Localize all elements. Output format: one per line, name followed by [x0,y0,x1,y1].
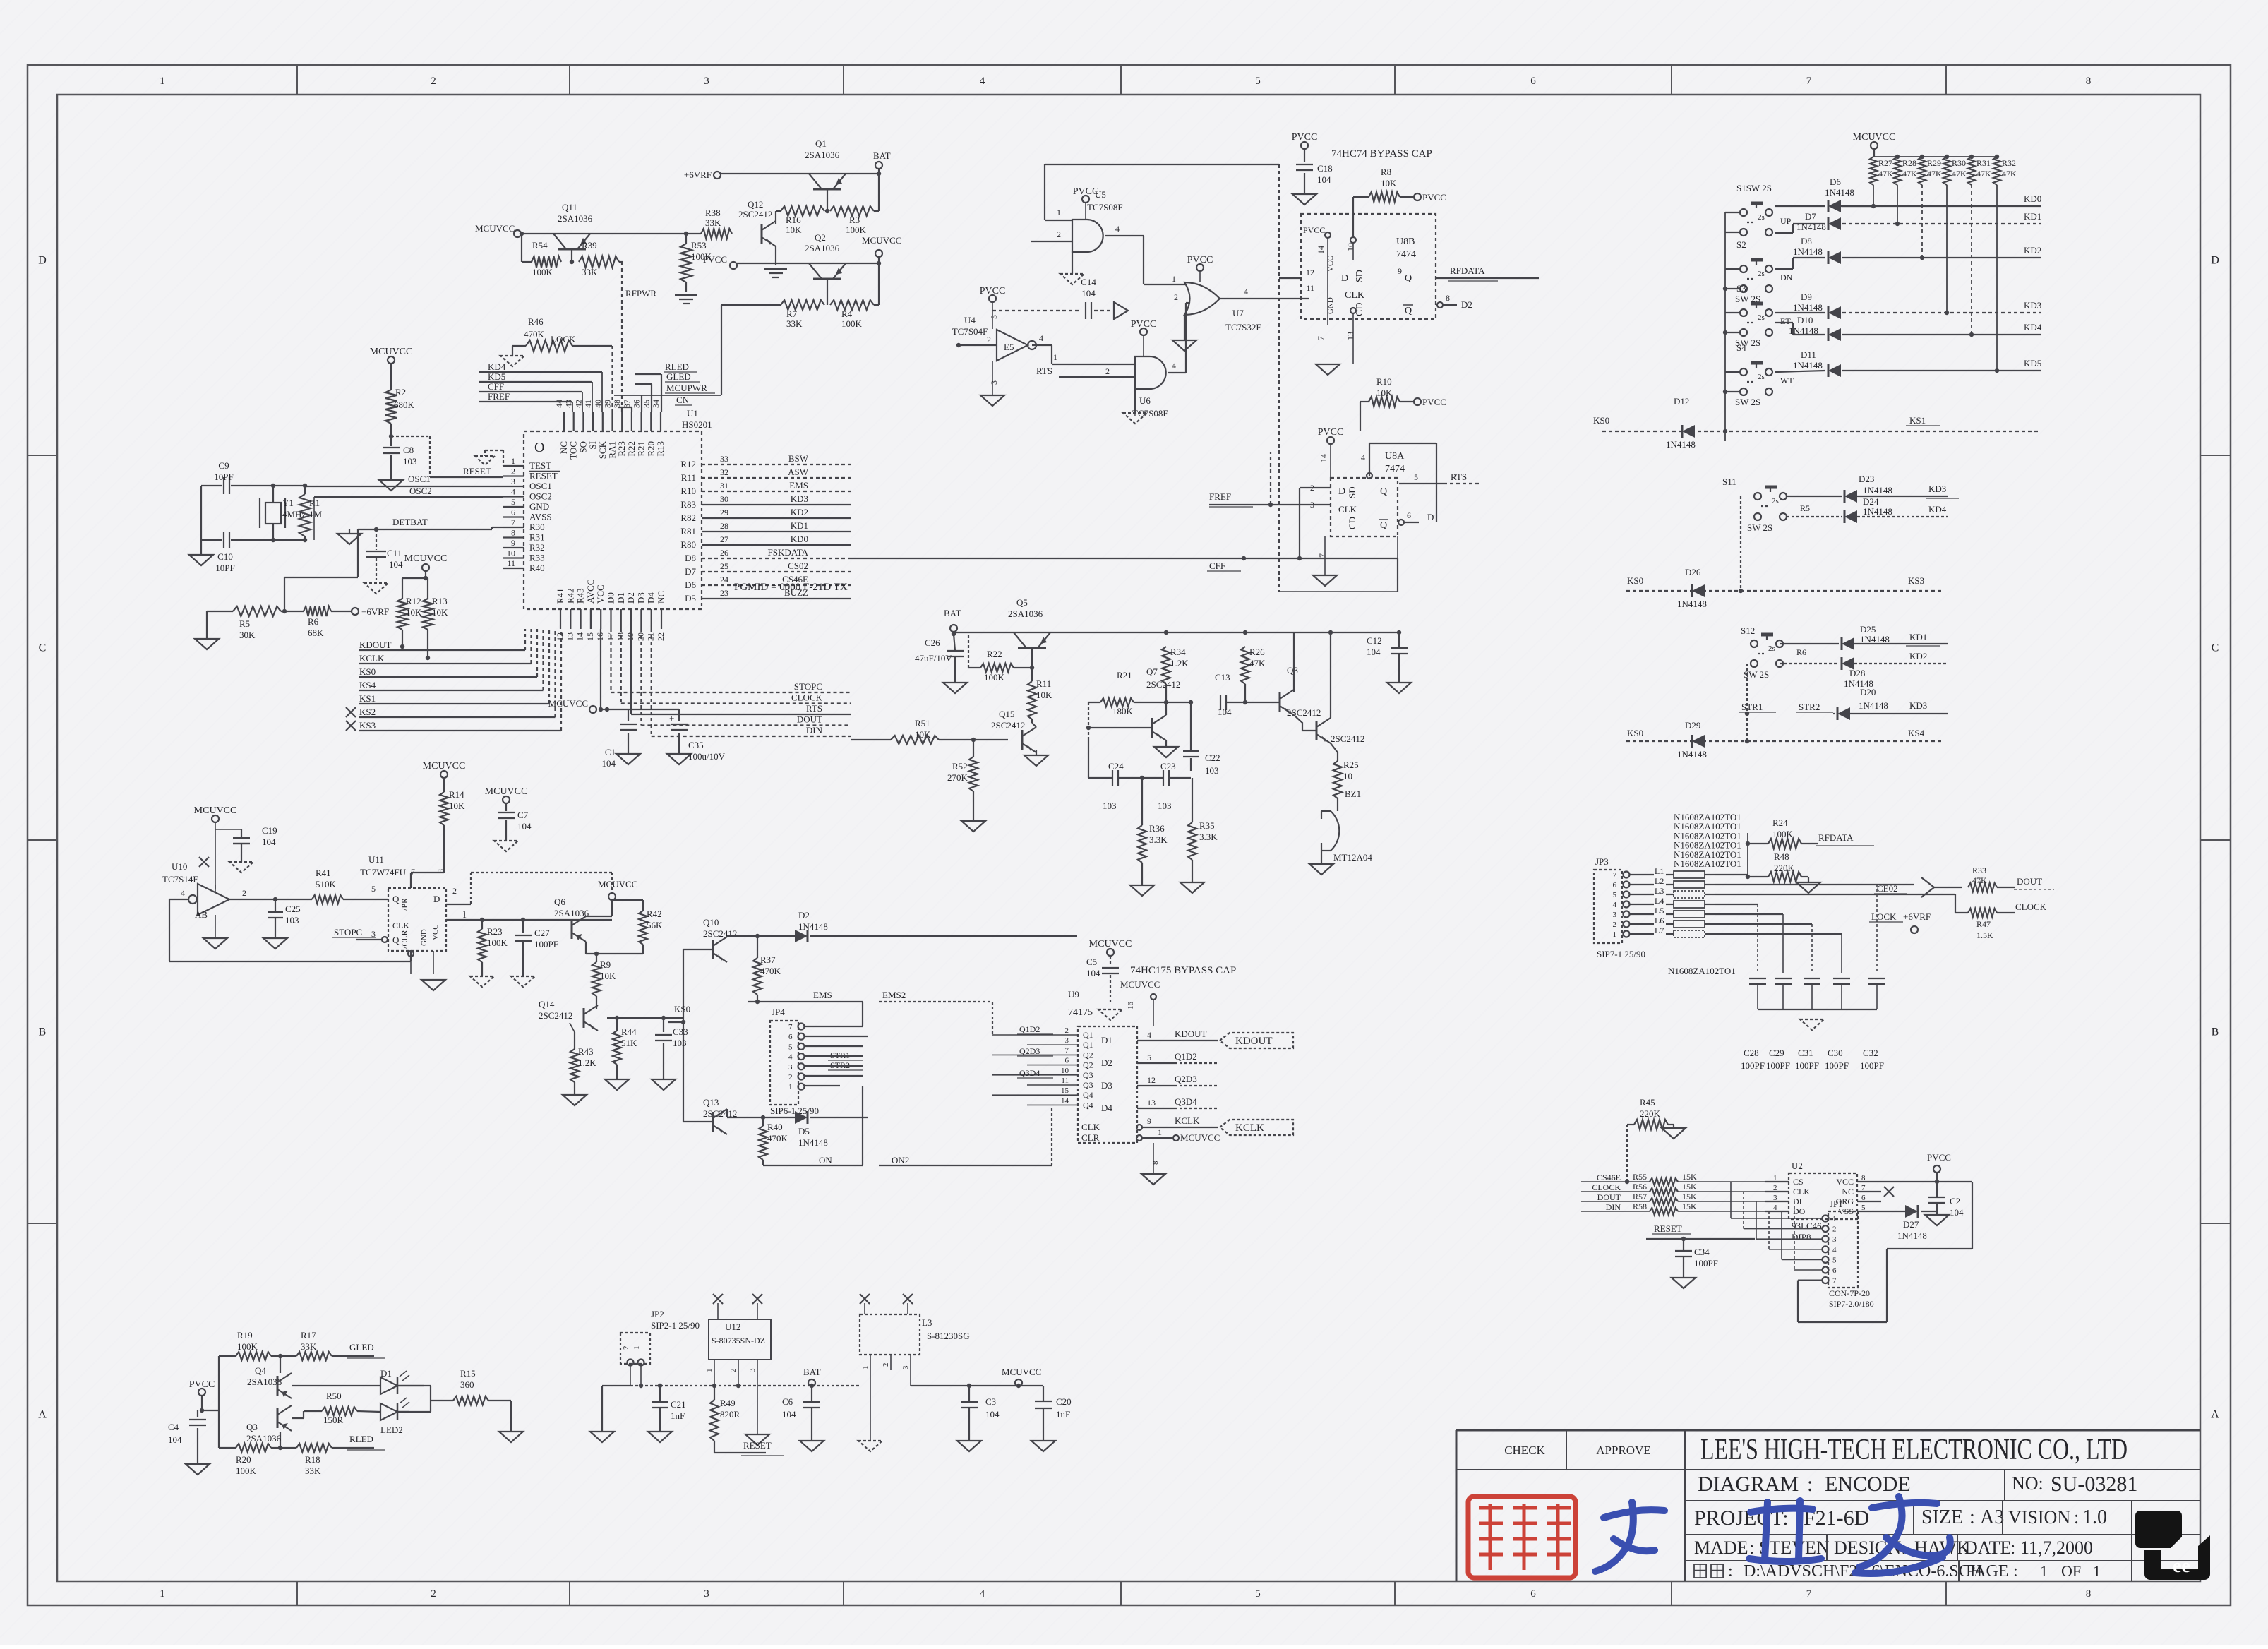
svg-text:1: 1 [1832,1215,1837,1223]
svg-text:MCUVCC: MCUVCC [1089,939,1132,949]
svg-text:RFDATA: RFDATA [1450,265,1485,276]
svg-text:33K: 33K [305,1465,321,1476]
svg-text:1.2K: 1.2K [578,1057,596,1068]
svg-text:5: 5 [1861,1204,1866,1212]
svg-text:VCC: VCC [595,584,606,604]
svg-text:104: 104 [1218,707,1232,717]
svg-text:PVCC: PVCC [189,1379,215,1390]
svg-text:C4: C4 [168,1422,179,1432]
svg-text:2SA1036: 2SA1036 [246,1433,282,1444]
svg-text:GLED: GLED [666,371,691,382]
svg-text:A: A [38,1409,47,1421]
svg-text:RFPWR: RFPWR [625,288,656,299]
svg-text:2: 2 [987,335,991,344]
svg-text:C2: C2 [1950,1196,1960,1206]
svg-text:MCUVCC: MCUVCC [475,223,515,234]
svg-text:KDOUT: KDOUT [1175,1029,1207,1039]
svg-text:15K: 15K [1682,1192,1697,1201]
svg-text:C: C [39,642,47,654]
svg-text:R13: R13 [432,596,448,606]
svg-text:EMS2: EMS2 [882,990,906,1000]
svg-text:R41: R41 [555,588,565,604]
svg-text:R22: R22 [987,649,1002,659]
svg-text:2: 2 [431,1588,436,1600]
svg-text:CFF: CFF [488,381,504,392]
svg-text:U12: U12 [725,1321,740,1332]
svg-text:C27: C27 [534,928,550,938]
svg-text:DIN: DIN [1606,1202,1621,1212]
svg-text:14: 14 [1316,246,1326,254]
svg-text:3: 3 [901,1365,910,1369]
svg-text:D27: D27 [1903,1219,1919,1230]
svg-text:U8B: U8B [1396,236,1415,247]
svg-text:Q2: Q2 [1083,1050,1093,1060]
svg-text:R24: R24 [1772,817,1788,828]
svg-text:R10: R10 [1376,376,1392,387]
svg-text:R16: R16 [786,215,801,225]
svg-text:CFF: CFF [1209,560,1225,571]
svg-text:1N4148: 1N4148 [1793,360,1823,371]
svg-text:HS0201: HS0201 [682,419,712,430]
svg-text:U9: U9 [1068,989,1079,1000]
svg-text:U2: U2 [1792,1161,1803,1171]
svg-text:KS4: KS4 [359,680,376,690]
svg-text:1: 1 [2040,1562,2048,1580]
svg-text:MCUVCC: MCUVCC [485,786,528,797]
svg-text:15: 15 [1061,1086,1069,1095]
svg-text:VCC: VCC [431,924,440,940]
svg-text:103: 103 [403,456,417,467]
svg-text:DIN: DIN [806,725,823,736]
svg-text:180K: 180K [1112,706,1134,716]
svg-text:SIZE: SIZE [1921,1506,1963,1528]
svg-text:FREF: FREF [488,391,510,402]
svg-text:KD3: KD3 [791,493,808,504]
svg-text:RTS: RTS [806,703,822,714]
svg-text:R3: R3 [849,215,860,225]
svg-text:D1: D1 [380,1368,392,1379]
svg-text:FSKDATA: FSKDATA [768,547,809,558]
svg-text:32: 32 [720,467,728,477]
svg-text:4: 4 [1832,1246,1837,1254]
svg-text:10: 10 [1345,243,1355,251]
svg-text:KD3: KD3 [2024,300,2041,311]
svg-text:C32: C32 [1863,1048,1878,1058]
svg-text:D8: D8 [685,553,696,563]
svg-text:MCUVCC: MCUVCC [1120,979,1160,990]
svg-text:11: 11 [507,558,515,568]
svg-text:R49: R49 [720,1398,736,1408]
svg-text:2SC2412: 2SC2412 [1331,733,1364,744]
svg-text:L7: L7 [1655,925,1664,935]
svg-text:MCUVCC: MCUVCC [370,347,413,357]
svg-text:3: 3 [748,1368,757,1372]
svg-text:Q: Q [392,894,400,904]
svg-text:S12: S12 [1741,625,1755,636]
svg-text:R34: R34 [1170,647,1186,657]
svg-text:C25: C25 [285,904,301,914]
svg-text:BAT: BAT [873,150,891,161]
svg-text:5: 5 [1255,76,1261,87]
svg-text:PVCC: PVCC [1422,397,1446,407]
svg-text:OSC1: OSC1 [529,481,552,491]
svg-text:Q15: Q15 [999,709,1014,719]
svg-text:100K: 100K [1772,829,1794,839]
svg-text:L3: L3 [1655,886,1664,896]
svg-text:100PF: 100PF [1766,1060,1790,1071]
svg-text:SIP6-1.25/90: SIP6-1.25/90 [770,1105,819,1116]
svg-text:KD1: KD1 [2024,211,2041,222]
svg-text:CS46E: CS46E [1597,1173,1621,1182]
svg-text:C23: C23 [1160,761,1176,772]
svg-text:SD: SD [1355,270,1365,282]
svg-text:6: 6 [788,1033,793,1041]
svg-text:MCUVCC: MCUVCC [194,805,237,816]
svg-text:10K: 10K [432,607,448,618]
svg-text:1: 1 [1158,1127,1162,1137]
svg-text:ENCODE: ENCODE [1825,1473,1911,1496]
svg-text:S1SW 2S: S1SW 2S [1736,183,1772,193]
svg-text:150R: 150R [323,1415,344,1425]
svg-text:STR1: STR1 [1741,702,1763,712]
svg-text:4: 4 [1361,452,1365,462]
svg-text:N1608ZA102TO1: N1608ZA102TO1 [1668,966,1736,976]
svg-text:/PR: /PR [400,898,409,911]
svg-text::: : [2074,1507,2079,1528]
svg-text:100PF: 100PF [1694,1258,1718,1269]
svg-text:Q3D4: Q3D4 [1019,1068,1040,1078]
svg-text:33K: 33K [301,1341,317,1352]
svg-text:MCUVCC: MCUVCC [404,553,448,564]
svg-text:Q11: Q11 [562,202,577,212]
svg-text:2: 2 [729,1369,738,1373]
svg-text:R58: R58 [1633,1201,1647,1211]
svg-text:D28: D28 [1849,668,1865,678]
svg-text:C: C [2212,642,2219,654]
svg-text:RTS: RTS [1451,472,1467,482]
svg-text:KS3: KS3 [359,720,376,731]
svg-text:47K: 47K [1878,169,1893,179]
svg-text:Q1: Q1 [815,138,827,149]
svg-text:SIP2-1 25/90: SIP2-1 25/90 [651,1320,700,1331]
svg-text:104: 104 [262,837,276,847]
svg-text:R31: R31 [1976,158,1991,168]
svg-text:D1: D1 [1101,1035,1112,1045]
svg-text:3: 3 [704,1588,709,1600]
svg-text:ON2: ON2 [892,1155,909,1165]
svg-text:DOUT: DOUT [797,714,822,725]
svg-text:Q: Q [1380,486,1387,497]
svg-text:14: 14 [1061,1096,1069,1105]
svg-text:WT: WT [1780,376,1794,385]
svg-text:12: 12 [1147,1075,1156,1085]
svg-text:SU-03281: SU-03281 [2051,1473,2137,1496]
svg-text:25: 25 [720,561,728,571]
svg-text:100PF: 100PF [1825,1060,1849,1071]
svg-text:C26: C26 [925,637,940,648]
svg-text:JP3: JP3 [1595,856,1609,867]
svg-text:U6: U6 [1139,395,1151,406]
svg-text:D10: D10 [1797,315,1813,325]
svg-text:D25: D25 [1860,624,1876,635]
svg-text:Q4: Q4 [1083,1090,1093,1100]
svg-text:11,7,2000: 11,7,2000 [2020,1537,2093,1558]
svg-text:CLK: CLK [1081,1122,1100,1132]
svg-text:2s: 2s [1758,270,1765,278]
svg-text:R35: R35 [1199,820,1215,831]
svg-text:KD2: KD2 [1909,651,1927,661]
svg-text:2: 2 [1105,366,1110,376]
svg-text:D29: D29 [1685,720,1700,731]
svg-text:D7: D7 [1805,211,1816,222]
svg-text:R20: R20 [236,1454,251,1465]
svg-text:1: 1 [1053,352,1057,362]
svg-text:R8: R8 [1381,167,1391,177]
svg-text:+6VRF: +6VRF [1903,911,1931,922]
svg-text:ASW: ASW [788,467,809,477]
svg-text:KS2: KS2 [359,707,376,717]
svg-text:R5: R5 [239,618,250,629]
svg-text:EMS: EMS [813,990,832,1000]
svg-text:VISION: VISION [2008,1507,2070,1528]
svg-text:15: 15 [585,632,595,641]
svg-text:GND: GND [1326,297,1335,314]
svg-text:4: 4 [511,487,515,497]
svg-text:D23: D23 [1859,474,1874,484]
svg-text:7: 7 [1861,1184,1866,1192]
svg-text:100K: 100K [841,318,863,329]
svg-text:R10: R10 [680,486,696,496]
svg-text:C20: C20 [1056,1396,1072,1407]
svg-text:7: 7 [1806,76,1812,87]
svg-text:47K: 47K [1952,169,1967,179]
svg-text:KCLK: KCLK [1235,1122,1264,1134]
svg-text:Y1: Y1 [282,498,294,508]
svg-text:7474: 7474 [1396,249,1416,260]
svg-text:D: D [1341,273,1348,284]
svg-text:104: 104 [1367,647,1381,657]
svg-text:D6: D6 [1830,176,1841,187]
svg-text:STOPC: STOPC [794,681,822,692]
svg-text:13: 13 [1345,332,1355,340]
svg-text:CLR: CLR [1081,1132,1100,1143]
svg-text:C18: C18 [1317,163,1333,174]
svg-text:KD4: KD4 [2024,322,2042,332]
svg-text:C12: C12 [1367,635,1382,646]
svg-text:VCC: VCC [1326,256,1335,272]
svg-text:4: 4 [1244,287,1248,296]
svg-text:LED2: LED2 [380,1425,403,1435]
svg-text:9: 9 [511,538,515,548]
svg-text:BSW: BSW [788,453,809,464]
svg-text:CON-7P-20: CON-7P-20 [1829,1288,1870,1298]
svg-text:R9: R9 [600,959,611,970]
svg-text:+6VRF: +6VRF [361,606,389,617]
svg-text:PAGE: PAGE [1966,1562,2008,1581]
svg-text:R31: R31 [529,532,545,543]
svg-text:2SC2412: 2SC2412 [1287,707,1321,718]
svg-text:R43: R43 [575,588,586,604]
svg-text:6: 6 [1530,76,1536,87]
svg-text:FREF: FREF [1209,491,1231,502]
svg-text:Q3: Q3 [1083,1080,1093,1090]
svg-text:820R: 820R [720,1409,740,1420]
svg-text:CLK: CLK [1793,1187,1810,1197]
svg-text:15K: 15K [1682,1182,1697,1192]
svg-text:DN: DN [1780,272,1793,282]
svg-text:R4: R4 [841,308,853,319]
svg-text:RESET: RESET [1654,1223,1682,1234]
svg-text:3: 3 [1065,1036,1069,1045]
svg-text:R45: R45 [1640,1097,1655,1108]
svg-text:U8A: U8A [1385,451,1405,462]
svg-text:R7: R7 [786,308,798,319]
svg-text:D12: D12 [1674,396,1689,407]
svg-text:1M: 1M [309,509,323,520]
svg-text:13: 13 [565,632,575,641]
svg-text:TC7S08F: TC7S08F [1132,408,1168,419]
svg-text:11: 11 [1061,1077,1069,1085]
svg-text:R81: R81 [680,526,696,536]
svg-text:10: 10 [1061,1067,1069,1075]
svg-text:C6: C6 [782,1396,793,1407]
svg-text:2: 2 [1174,292,1178,302]
svg-text:R53: R53 [691,240,707,251]
svg-text:2SC2412: 2SC2412 [738,209,772,220]
svg-text:Q3D4: Q3D4 [1175,1096,1197,1107]
svg-text:D2: D2 [1101,1057,1112,1068]
svg-text:26: 26 [720,548,728,558]
svg-text::: : [2013,1562,2018,1581]
svg-text:14: 14 [575,632,585,641]
svg-text:APPROVE: APPROVE [1596,1444,1650,1457]
svg-text:STR2: STR2 [1799,702,1820,712]
svg-text:R12: R12 [680,459,696,469]
svg-text:D5: D5 [685,593,696,604]
svg-text:2: 2 [622,1346,630,1350]
svg-text:47K: 47K [1927,169,1942,179]
svg-text:CE02: CE02 [1877,883,1898,894]
svg-text:3.3K: 3.3K [1199,832,1218,842]
svg-text:6: 6 [1613,881,1617,889]
svg-text:D2: D2 [798,910,810,921]
svg-text:R11: R11 [1036,678,1051,689]
svg-text:1: 1 [1613,930,1617,939]
svg-text:S-80735SN-DZ: S-80735SN-DZ [712,1336,765,1345]
svg-text:104: 104 [168,1434,182,1445]
svg-text:10K: 10K [449,800,465,811]
svg-text:JP2: JP2 [651,1309,664,1319]
svg-text:GND: GND [529,501,549,512]
svg-text:C9: C9 [218,460,229,471]
svg-text:R14: R14 [449,789,464,800]
svg-text:16: 16 [1127,1002,1135,1010]
svg-text:DOUT: DOUT [2017,876,2042,887]
svg-text:R41: R41 [316,868,331,878]
svg-text:+6VRF: +6VRF [684,169,712,180]
svg-text:1.5K: 1.5K [1976,930,1993,940]
svg-text:E5: E5 [1004,342,1014,352]
svg-text:D20: D20 [1860,687,1876,697]
svg-text:100PF: 100PF [1860,1060,1884,1071]
svg-text:Q1D2: Q1D2 [1175,1051,1197,1062]
svg-text:RTS: RTS [1036,366,1052,376]
svg-text:SIP7-2.0/180: SIP7-2.0/180 [1829,1299,1874,1309]
svg-text:R21: R21 [1117,670,1132,680]
svg-text:/CLR: /CLR [400,930,409,949]
svg-text:2SA1036: 2SA1036 [1008,608,1043,619]
svg-text:L3: L3 [922,1317,932,1328]
svg-text:R11: R11 [681,472,696,483]
svg-text:TC7S04F: TC7S04F [952,326,988,337]
svg-text:2: 2 [1065,1026,1069,1035]
svg-text:S2: S2 [1736,239,1746,250]
svg-text:6: 6 [511,508,515,517]
svg-text:U1: U1 [687,408,698,419]
svg-text:Q8: Q8 [1287,665,1298,676]
svg-text:R17: R17 [301,1330,316,1341]
svg-text:AVCC: AVCC [585,580,596,604]
svg-text:SD: SD [1347,486,1357,498]
svg-text:100PF: 100PF [1741,1060,1765,1071]
svg-text:NC: NC [1842,1187,1854,1197]
svg-text:R5: R5 [1800,503,1810,513]
svg-text:6: 6 [1832,1266,1837,1275]
svg-text:C7: C7 [517,810,529,820]
svg-text:ON: ON [819,1155,832,1165]
svg-text:1: 1 [861,1366,870,1370]
svg-text:GLED: GLED [349,1342,374,1353]
svg-text:D: D [433,894,440,904]
svg-text:LOCK: LOCK [551,334,576,344]
svg-text:5: 5 [788,1043,793,1051]
svg-text:D5: D5 [798,1126,810,1137]
svg-text:R48: R48 [1774,851,1789,862]
svg-text:Q14: Q14 [539,999,555,1009]
svg-text:8: 8 [1151,1161,1160,1165]
svg-text:C33: C33 [673,1026,688,1037]
svg-text:1: 1 [1172,274,1176,284]
svg-text:10: 10 [507,548,515,558]
svg-text:2SC2412: 2SC2412 [991,720,1025,731]
svg-text:SW 2S: SW 2S [1735,397,1760,407]
svg-text:1: 1 [1057,208,1061,217]
svg-text:1N4148: 1N4148 [1863,485,1892,496]
svg-text:C21: C21 [671,1399,686,1410]
svg-text:L6: L6 [1655,916,1664,925]
svg-text:2SA1036: 2SA1036 [558,213,593,224]
svg-text:1N4148: 1N4148 [1863,506,1892,517]
svg-text:U11: U11 [368,854,384,865]
svg-text:33: 33 [720,454,728,464]
svg-text:104: 104 [602,758,616,769]
svg-text:R12: R12 [406,596,421,606]
svg-text:5: 5 [1147,1053,1151,1062]
svg-text:74HC74 BYPASS CAP: 74HC74 BYPASS CAP [1331,148,1432,160]
svg-text:CD: CD [1347,517,1357,529]
svg-text:D: D [2211,255,2219,267]
svg-text:47K: 47K [1249,658,1266,668]
svg-text:24: 24 [720,575,728,584]
svg-text:6: 6 [1861,1194,1866,1202]
svg-text:OF: OF [2061,1562,2081,1580]
svg-text:+: + [669,713,674,724]
svg-text:6: 6 [1530,1588,1536,1600]
svg-text:30: 30 [720,494,728,504]
svg-text:10K: 10K [406,607,422,618]
svg-text:PVCC: PVCC [1131,319,1157,330]
svg-text:360: 360 [460,1379,474,1390]
